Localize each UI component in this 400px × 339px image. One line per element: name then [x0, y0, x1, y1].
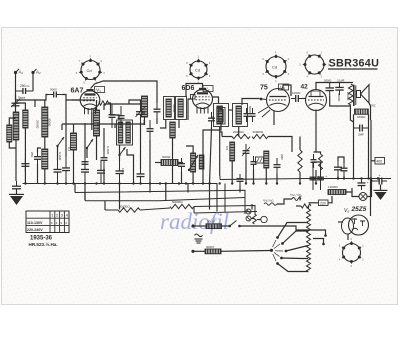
- svg-text:A₁: A₁: [19, 70, 24, 75]
- resistor R10 volume: [191, 153, 196, 172]
- wire C17 down: [210, 127, 212, 184]
- wire IF2 link: [229, 109, 233, 111]
- value label 100 g: [142, 120, 146, 125]
- heater choke 1: [206, 224, 222, 229]
- value field: [357, 115, 365, 119]
- wire v1 bottom drops: [84, 123, 86, 158]
- label 6D6: [182, 85, 195, 92]
- wire cv2 top: [129, 100, 141, 104]
- value label 0,1MF a: [58, 152, 62, 161]
- antenna coil L1b: [7, 125, 12, 142]
- value top b: [337, 79, 345, 83]
- oscillator transformer box: [117, 120, 133, 145]
- mains prong 1: [313, 230, 326, 235]
- ground symbol main: [9, 194, 24, 205]
- bus junction dot 7: [95, 182, 97, 184]
- dial lamp B: [246, 216, 251, 221]
- label 75: [260, 85, 268, 92]
- svg-text:6D6: 6D6: [182, 85, 195, 92]
- variable cap arrow CV2: [136, 106, 146, 117]
- wire AVC line: [62, 124, 115, 128]
- heater wire to mains: [240, 226, 314, 230]
- wire R3 down: [172, 138, 174, 184]
- wire L1b top: [9, 118, 15, 125]
- wire C16 down: [156, 118, 158, 124]
- wire V6 anode feed: [370, 179, 372, 217]
- heater terminal upper: [191, 224, 194, 227]
- wire c34 left: [372, 180, 375, 182]
- bus junction dot 25: [276, 182, 278, 184]
- filter choke 110000: [328, 190, 346, 195]
- capacitor C5: [62, 155, 70, 184]
- bus wire B4a: [105, 209, 118, 211]
- wire b3 drop: [84, 193, 86, 201]
- coil L3: [42, 107, 48, 137]
- label HR-523: [29, 241, 58, 247]
- mains prong 2: [313, 239, 324, 244]
- capacitor C16 IF1: [154, 103, 161, 118]
- svg-text:20000: 20000: [96, 122, 100, 131]
- pentode tube V2 (6D6): [193, 88, 213, 114]
- mains triple bar: [195, 239, 203, 243]
- wire R4 down: [203, 124, 221, 184]
- svg-text:Cd: Cd: [87, 68, 92, 73]
- wire c23 down: [276, 174, 278, 184]
- svg-text:100: 100: [142, 120, 146, 125]
- value label 0,1 c: [211, 116, 215, 121]
- wire b4 left drop: [104, 201, 106, 210]
- coil L6 oscillator: [94, 110, 100, 136]
- label V3 box: [279, 84, 289, 90]
- svg-text:250cm: 250cm: [20, 84, 30, 88]
- wire osc box bottom drops: [119, 145, 121, 161]
- wire T2A bottom: [219, 127, 221, 177]
- wire af choke right: [178, 162, 183, 164]
- value r5: [233, 130, 244, 134]
- selector wire 3: [286, 246, 308, 252]
- pilot lamp M: [359, 193, 367, 201]
- capacitor C25 coupling: [291, 95, 303, 102]
- bus junction dot 9: [118, 182, 120, 184]
- wire c2c drops: [37, 164, 39, 184]
- bus wire B4c: [194, 206, 255, 215]
- svg-text:0,1: 0,1: [211, 116, 215, 121]
- wire IF1 bottoms: [160, 120, 166, 129]
- wire R7 drops: [231, 161, 233, 184]
- band switch S2: [86, 139, 93, 149]
- wire V3 plate up: [283, 85, 291, 96]
- bus junction dot 17: [192, 182, 194, 184]
- capacitor C2b left: [21, 158, 29, 172]
- HT rail dot x371: [370, 177, 372, 179]
- lamp socket circle: [261, 216, 267, 222]
- resistor R16 lamp shunt: [253, 214, 257, 224]
- svg-text:30000: 30000: [337, 93, 341, 102]
- resistor R3 AVC: [170, 122, 175, 138]
- capacitor C6: [81, 158, 89, 184]
- V3 diode lead 2: [262, 110, 270, 117]
- svg-text:0,5: 0,5: [225, 146, 229, 151]
- svg-text:1935-36: 1935-36: [30, 236, 53, 242]
- HT rail dot x361.5: [360, 177, 362, 179]
- coil L4: [71, 133, 77, 150]
- wire c36 bottom: [343, 176, 345, 179]
- bus junction dot 15: [178, 182, 180, 184]
- node A1 terminal: [14, 69, 19, 74]
- wire c12c13 join: [103, 104, 105, 110]
- heater wire lower: [193, 250, 205, 252]
- tube socket diagram for V3: [262, 50, 289, 83]
- wire drop x165 low: [165, 184, 167, 201]
- wire field coil right down: [368, 114, 370, 178]
- value label 0,5 f: [225, 146, 229, 151]
- rotary contact 3: [285, 250, 288, 253]
- value 25000 vertical: [346, 92, 350, 101]
- bus junction dot 2: [44, 182, 46, 184]
- label V3: [280, 85, 285, 91]
- voltage selection table: [26, 211, 69, 233]
- value top a: [324, 79, 332, 83]
- value choke1: [207, 220, 216, 224]
- svg-text:0,1MF: 0,1MF: [58, 152, 62, 161]
- svg-text:10000: 10000: [292, 91, 301, 95]
- bus junction dot 27: [315, 182, 317, 184]
- rotary selector pivot: [270, 249, 273, 252]
- capacitor C18 IF2a: [244, 108, 250, 122]
- bus junction dot 14: [165, 182, 167, 184]
- value 220: [320, 201, 326, 205]
- title underline: [328, 68, 378, 70]
- label terre: [18, 96, 25, 100]
- value r6: [253, 130, 264, 134]
- wire r9 down: [265, 168, 267, 184]
- rotary contact 2: [281, 242, 284, 245]
- label 1935-36: [30, 236, 53, 242]
- wire c24 down: [181, 172, 183, 184]
- capacitor C7: [97, 160, 105, 184]
- capacitor C9 osc pad: [116, 161, 124, 184]
- dial lamp A: [246, 209, 251, 214]
- wire lamp right: [367, 179, 372, 197]
- svg-text:50000: 50000: [172, 104, 176, 113]
- capacitor antenna series: [16, 88, 34, 94]
- HT rail dot x320.5: [319, 177, 321, 179]
- capacitor C28 cathode V4: [311, 154, 317, 168]
- bus junction dot 5: [72, 182, 74, 184]
- wire V2 screen: [188, 99, 193, 120]
- wire L6 bottom: [96, 136, 98, 160]
- svg-text:0,1: 0,1: [67, 147, 71, 152]
- svg-text:50000: 50000: [324, 79, 332, 83]
- HT rail right: [220, 179, 391, 180]
- wire b2 drop b: [187, 184, 189, 193]
- wire 220 right: [328, 196, 332, 203]
- wire V1 grid left: [72, 99, 80, 101]
- wire cv2 bottom: [140, 122, 142, 169]
- svg-text:2MF: 2MF: [280, 154, 284, 160]
- wire b3 right hook: [299, 196, 301, 201]
- resistor R14 box 400: [375, 158, 385, 165]
- field coil (Exc.): [355, 109, 369, 114]
- svg-text:30007: 30007: [207, 220, 216, 224]
- wire osc grid: [98, 102, 101, 104]
- value choke2: [206, 245, 215, 249]
- variable capacitor CV2: [136, 104, 145, 122]
- heater string squiggle: [264, 203, 277, 205]
- label half v3 v4: [263, 199, 275, 203]
- svg-text:42: 42: [301, 84, 309, 91]
- wire vol top: [186, 146, 193, 153]
- wire V4 plate up: [316, 83, 353, 90]
- bus wire B4b: [140, 208, 170, 210]
- wire lamp links: [251, 218, 255, 220]
- bus junction dot 10: [132, 182, 134, 184]
- wire sw1 drop: [57, 146, 59, 160]
- svg-text:½V₅ ½V₆: ½V₅ ½V₆: [290, 193, 303, 197]
- bus junction dot 3: [56, 182, 58, 184]
- rotary contact 5: [276, 262, 279, 265]
- svg-text:110000: 110000: [328, 185, 338, 189]
- spare socket diagram bottom: [339, 237, 365, 268]
- svg-text:Cd: Cd: [272, 65, 277, 70]
- wire c26 bottom: [330, 96, 350, 106]
- bus junction dot 21: [231, 182, 233, 184]
- wire osc b drop: [127, 149, 134, 184]
- HT rail dot x344: [343, 177, 345, 179]
- capacitor C21: [243, 144, 250, 160]
- wire top rail left section: [16, 95, 49, 101]
- value label 250 j: [30, 152, 34, 157]
- label V4 box: [311, 91, 320, 97]
- wire step v2: [224, 184, 226, 212]
- svg-text:x: x: [60, 221, 62, 225]
- wire L2 bottom down to bus: [24, 128, 26, 184]
- wire r13 join: [314, 152, 321, 154]
- socket V3 centre label: [272, 65, 277, 70]
- HT rail dot x368.5: [367, 177, 369, 179]
- bus junction dot 12: [149, 182, 151, 184]
- label v5v6: [290, 193, 303, 197]
- trimmer arrow C21: [242, 147, 250, 156]
- svg-text:75: 75: [260, 85, 268, 92]
- coil L2: [23, 110, 28, 128]
- IF transformer T2 box B: [233, 104, 248, 127]
- value label 1MF k: [121, 168, 125, 174]
- IF transformer T2 box A: [214, 104, 229, 127]
- bus wire B2: [75, 190, 245, 214]
- label A2: [36, 70, 41, 75]
- wire drop x150 low: [149, 184, 151, 193]
- IF T2 winding A: [217, 106, 222, 124]
- capacitor C12: [109, 104, 116, 128]
- bus junction dot 19: [208, 182, 210, 184]
- ballast resistor tall: [307, 209, 311, 272]
- wire lamp link2: [257, 219, 261, 221]
- value label 0,1MF b: [106, 146, 110, 155]
- wire field coil left down: [353, 114, 355, 178]
- heater wire upper right: [222, 225, 230, 227]
- value label 250cm: [20, 84, 30, 88]
- wire af choke leads: [155, 162, 161, 164]
- oscillator band switch S3: [118, 147, 125, 156]
- wire r12 up: [299, 137, 301, 151]
- capacitor C27 tone b: [335, 83, 344, 96]
- capacitor C22: [251, 156, 257, 170]
- capacitor C2 left ground: [12, 181, 21, 194]
- capacitor C19 IF2b: [250, 108, 256, 122]
- ballast top wire: [308, 206, 310, 209]
- value label 50000 v: [172, 104, 176, 113]
- wire V6 to ballast top: [338, 221, 343, 223]
- heater wire lower to rotary: [221, 250, 271, 253]
- label 25Z5: [351, 206, 367, 213]
- bus wire B1 (chassis): [23, 184, 218, 212]
- wire gnd lead: [16, 190, 18, 195]
- svg-text:6A7: 6A7: [71, 88, 84, 95]
- wire vol bottom: [192, 172, 194, 184]
- rectifier tube V6 (25Z5): [342, 215, 369, 235]
- wire from A1 down left rail: [15, 74, 17, 101]
- pentagrid tube V1 (6A7): [80, 89, 100, 114]
- capacitor C11: [147, 120, 154, 140]
- value r15: [119, 205, 130, 209]
- svg-text:1MF: 1MF: [121, 168, 125, 174]
- capacitor C24: [178, 158, 185, 172]
- V3 diode lead 1: [258, 107, 268, 113]
- coil L5: [42, 149, 48, 169]
- watermark radiofil: [160, 209, 229, 234]
- heater winding squiggle: [292, 198, 301, 201]
- mains terminal dot 2: [322, 243, 325, 246]
- label V2 box: [203, 86, 213, 92]
- value label 20000 h: [96, 122, 100, 131]
- wire L5 bottom to bus: [44, 169, 46, 184]
- V3 grid cap lead: [260, 98, 267, 101]
- svg-text:0,1MF: 0,1MF: [337, 79, 345, 83]
- bus junction dot 18: [202, 182, 204, 184]
- svg-text:Cd: Cd: [195, 68, 200, 73]
- rotary contact 1: [276, 236, 279, 239]
- value af choke: [162, 155, 171, 159]
- wire L3 to L5: [44, 137, 46, 149]
- AF filter choke: [161, 160, 178, 166]
- label 6A7: [71, 88, 84, 95]
- capacitor C14: [82, 156, 89, 170]
- wire drop x85 low: [84, 184, 86, 201]
- wire L4 bottom: [73, 150, 75, 184]
- label V2: [205, 87, 210, 93]
- value l3: [48, 118, 52, 127]
- svg-text:5000: 5000: [248, 106, 252, 113]
- wire left rail down: [15, 95, 17, 112]
- capacitor C13: [118, 106, 125, 128]
- wire det line left: [222, 136, 232, 138]
- label 42: [301, 84, 309, 91]
- wire T2B bottom: [238, 127, 240, 137]
- wire transformer sec down: [350, 105, 353, 122]
- wire r14 stub: [371, 160, 375, 162]
- resistor R4 winding: [219, 110, 224, 123]
- svg-text:V₆: V₆: [344, 208, 349, 214]
- heater terminal lower: [191, 250, 194, 253]
- wire volume tap: [253, 170, 255, 184]
- value c25: [292, 91, 301, 95]
- wire h2 under V1: [104, 103, 142, 105]
- heater choke 2: [205, 249, 221, 254]
- selector wire 2: [283, 231, 309, 244]
- wire r14 rail drop: [370, 120, 372, 179]
- value label 0,1 i: [67, 147, 71, 152]
- resistor R6 40000: [252, 134, 268, 138]
- resistor R7 diode load: [230, 142, 235, 161]
- svg-text:1800Ω: 1800Ω: [357, 115, 365, 119]
- svg-text:25Z5: 25Z5: [351, 206, 367, 213]
- wire drop x240 low: [239, 186, 241, 193]
- wire det mid: [245, 160, 247, 184]
- bus junction dot 13: [159, 182, 161, 184]
- resistor R11: [199, 155, 204, 169]
- capacitor C10: [137, 167, 145, 184]
- wire c34 to gnd: [380, 185, 382, 192]
- wire step v1: [193, 207, 195, 214]
- resistor R18 box 220: [319, 200, 329, 206]
- bus junction dot 22: [245, 182, 247, 184]
- bus wire B3: [85, 198, 245, 201]
- svg-text:x: x: [56, 221, 58, 225]
- loudspeaker cone: [357, 85, 370, 103]
- wire L3 top: [44, 100, 46, 107]
- wire b4 right hook: [251, 204, 253, 210]
- wire c35 top: [338, 157, 344, 163]
- IF T2 winding B: [236, 106, 241, 124]
- resistor R8 box: [256, 157, 264, 163]
- scan noise texture: [3, 29, 395, 303]
- wire V1 top cap to HT: [91, 81, 158, 103]
- capacitor C20 under T2: [237, 174, 244, 186]
- antenna coil L1a: [13, 112, 19, 140]
- wire c2c top: [38, 148, 42, 152]
- electrolytic C35: [334, 161, 346, 176]
- resistor R17 ballast top: [301, 204, 311, 208]
- wire V4 cathode: [315, 110, 317, 153]
- svg-text:x: x: [51, 221, 53, 225]
- wire c31c32 top: [313, 162, 321, 167]
- bus junction dot 23: [252, 182, 254, 184]
- selector wire 4: [282, 257, 309, 260]
- heater wire upper: [193, 225, 206, 227]
- bus junction dot 24: [265, 182, 267, 184]
- wire from A2 down to series capacitor: [32, 74, 34, 92]
- wire r1 bottom: [144, 117, 146, 125]
- IF transformer T1 box B: [176, 97, 187, 120]
- title SBR364U: [329, 58, 380, 70]
- value c29: [358, 133, 364, 137]
- oscillator coil winding B: [126, 122, 130, 143]
- resistor R13 cathode V4: [319, 154, 323, 170]
- wire sw2 drop: [86, 148, 88, 158]
- wire V4 grid: [303, 98, 306, 100]
- wire AVC line ext: [115, 123, 144, 125]
- HT rail dot x353.5: [352, 177, 354, 179]
- wire IF1 b2: [178, 120, 180, 129]
- svg-text:30000: 30000: [162, 155, 171, 159]
- svg-text:½V₃½V₄: ½V₃½V₄: [263, 199, 275, 203]
- label V1: [96, 88, 101, 94]
- svg-text:20000Ω: 20000Ω: [233, 130, 244, 134]
- svg-text:50000Ω: 50000Ω: [119, 205, 130, 209]
- bus junction dot 4: [65, 182, 67, 184]
- wire drop x210 low: [209, 184, 211, 210]
